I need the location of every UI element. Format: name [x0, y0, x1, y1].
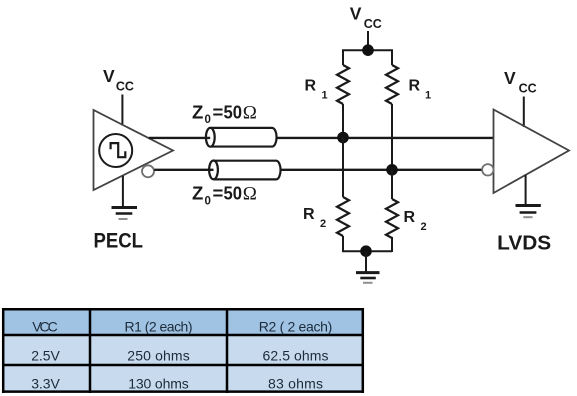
wire left branch down through bottom line — [342, 138, 344, 198]
wire driver out+ (to transmission line) — [149, 137, 211, 139]
wire out- to LVDS inverting input — [281, 169, 482, 171]
wire bottom bar (ground rail) — [342, 250, 392, 252]
transmission line T1 left ellipse — [206, 128, 215, 147]
svg-text:CC: CC — [519, 82, 537, 96]
wire R1 right down to bottom-line node — [391, 104, 393, 171]
LVDS receiver U2 (triangle) — [494, 110, 570, 194]
svg-text:1: 1 — [425, 90, 431, 102]
svg-text:50: 50 — [224, 183, 243, 204]
svg-text:Ω: Ω — [243, 184, 257, 205]
pulse waveform symbol — [111, 143, 126, 157]
svg-text:LVDS: LVDS — [497, 232, 551, 255]
junction dot (ground rail) — [360, 245, 372, 257]
label Z0=50ohm (bottom line) — [192, 183, 257, 208]
svg-text:83 ohms: 83 ohms — [268, 376, 323, 392]
table text — [31, 319, 332, 392]
wire LVDS to ground — [525, 175, 527, 205]
wire R1 left to node — [342, 104, 344, 140]
ground (PECL) — [112, 208, 138, 220]
label R1 (left) — [305, 78, 328, 102]
svg-text:CC: CC — [116, 80, 134, 94]
svg-text:2.5V: 2.5V — [31, 348, 60, 364]
pulse source circle inside driver — [99, 134, 132, 167]
wire R2 left to bottom bar — [342, 236, 344, 252]
svg-text:250 ohms: 250 ohms — [127, 348, 189, 364]
svg-text:V: V — [103, 66, 115, 86]
junction dot (VCC rail) — [362, 44, 374, 56]
label Z0=50ohm (top line) — [192, 102, 257, 127]
table grid — [2, 308, 364, 393]
transmission line T1 body — [210, 128, 276, 147]
label R1 (right) — [409, 78, 432, 102]
wire VCC to PECL driver — [121, 95, 123, 126]
table body rows fill — [3, 335, 363, 365]
svg-text:R2 ( 2 each): R2 ( 2 each) — [259, 319, 333, 335]
svg-text:0: 0 — [205, 114, 211, 126]
wire driver out- (to transmission line) — [154, 169, 213, 171]
junction dot (node on top line) — [337, 132, 349, 144]
svg-text:=: = — [213, 102, 224, 123]
svg-text:2: 2 — [421, 221, 427, 233]
svg-text:Z: Z — [192, 102, 203, 123]
wire out+ to LVDS input — [277, 137, 494, 139]
power VCC label (driver) — [103, 66, 134, 94]
svg-text:R: R — [409, 78, 421, 95]
table: resistor value table — [2, 308, 364, 393]
driver inverting output circle — [142, 165, 154, 177]
resistor R1 (left) — [337, 65, 349, 104]
table header row fill — [3, 309, 363, 335]
svg-text:50: 50 — [224, 102, 243, 123]
receiver inverting input circle — [482, 164, 493, 175]
wire VCC to LVDS — [523, 97, 525, 128]
ground (termination) — [356, 273, 380, 283]
ground (LVDS) — [516, 206, 541, 218]
svg-text:CC: CC — [364, 17, 382, 31]
power VCC label (receiver) — [504, 68, 537, 96]
wire VCC down to top bar — [367, 31, 369, 50]
svg-text:V: V — [504, 68, 516, 88]
wire right branch down — [391, 170, 393, 199]
label R2 (right) — [404, 209, 427, 233]
svg-text:130 ohms: 130 ohms — [128, 376, 189, 392]
junction dot (node on bottom line) — [386, 164, 398, 176]
resistor R2 (right) — [386, 199, 398, 238]
svg-text:1: 1 — [322, 90, 328, 102]
svg-text:VCC: VCC — [32, 319, 58, 335]
wire PECL to ground — [122, 176, 124, 207]
svg-text:62.5 ohms: 62.5 ohms — [263, 348, 329, 364]
svg-text:Ω: Ω — [243, 103, 257, 124]
resistor R1 (right) — [386, 65, 398, 104]
label R2 (left) — [303, 206, 326, 230]
wire top bar (VCC rail) — [343, 50, 392, 65]
transmission line T2 body — [214, 161, 281, 180]
svg-text:V: V — [350, 4, 362, 24]
svg-text:PECL: PECL — [94, 229, 144, 253]
svg-text:R1 (2 each): R1 (2 each) — [125, 319, 193, 335]
svg-text:R: R — [404, 209, 416, 226]
svg-text:=: = — [213, 183, 224, 204]
wire to center ground — [365, 251, 367, 271]
svg-text:Z: Z — [192, 183, 203, 204]
svg-text:3.3V: 3.3V — [31, 376, 60, 392]
wire R2 right to bottom bar — [391, 237, 393, 252]
svg-text:R: R — [305, 78, 317, 95]
resistor R2 (left) — [337, 197, 349, 236]
PECL driver U1 (triangle) — [94, 110, 174, 190]
svg-text:2: 2 — [320, 218, 326, 230]
power VCC label (termination) — [350, 4, 382, 32]
transmission line T2 left ellipse — [209, 161, 218, 180]
svg-text:0: 0 — [205, 196, 211, 208]
svg-text:R: R — [303, 206, 315, 223]
